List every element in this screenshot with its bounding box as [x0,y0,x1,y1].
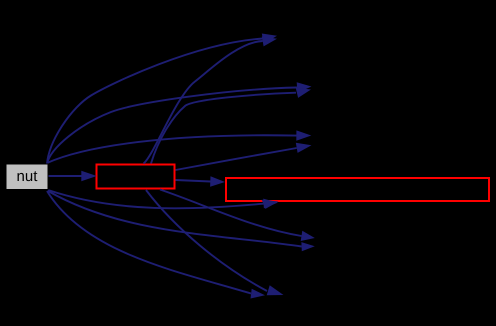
arrowhead box1->T1 [262,36,277,46]
arrowhead box1->T2 [296,88,311,98]
edge nut->T3 (wire) [47,135,297,163]
edge nut->T1 (wire) [47,39,263,165]
node nut (root, grey) [6,164,48,190]
node box1 (red highlighted) [97,165,175,189]
edge nut->T6 (wire) [47,191,251,294]
edge box1->T2 (wire) [151,93,296,164]
arrowhead box1->box2 [210,176,225,186]
arrowhead nut->T6 [251,289,266,299]
edge nut->T2 (wire) [47,88,297,165]
arrowhead box1->T5 [301,231,315,241]
arrowhead box1->T6 [267,285,284,295]
svg-text:nut: nut [17,168,39,185]
edge nut->box2 (wire) [48,190,264,208]
edge nut->box1 (wire) [48,175,82,177]
arrowhead nut->T2 [297,82,312,92]
edge box1->T6 (wire) [146,190,267,291]
arrowhead nut->T5 [301,242,314,251]
edge nut->T5 (wire) [48,191,302,247]
arrowhead nut->T1 [262,34,277,44]
edge box1->box2 (wire) [176,180,211,182]
arrowhead nut->box1 [81,171,97,182]
edge box1->T5 (wire) [160,190,302,237]
arrowhead box1->T3 [296,143,312,153]
edge box1->T1 (wire) [144,41,263,164]
edge box1->T3 (wire) [176,148,297,170]
arrowhead nut->T3 [296,130,311,140]
arrowhead nut->box2 [262,199,279,209]
node box2 (red highlighted, wide) [226,178,489,201]
